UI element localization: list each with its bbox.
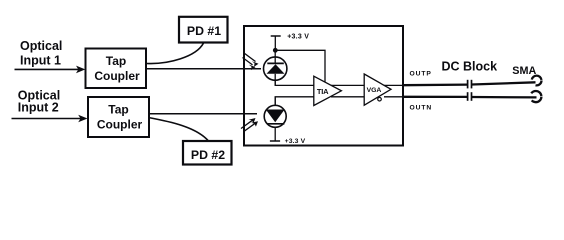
svg-text:DC Block: DC Block bbox=[442, 60, 498, 74]
light arrows into D1 bbox=[243, 53, 259, 70]
photodiode D2 (cathode bar down) bbox=[264, 97, 286, 141]
power +3.3 V top supply bbox=[271, 34, 310, 51]
node supply junction dot bbox=[273, 48, 278, 53]
tap coupler 1 bbox=[86, 49, 147, 89]
svg-text:Coupler: Coupler bbox=[97, 117, 143, 131]
wire tap coupler 2 to PD #2 (tap curve) bbox=[149, 118, 208, 141]
wire input arrow 2 bbox=[12, 115, 88, 123]
capacitor C1 (DC block upper) bbox=[468, 80, 472, 89]
svg-text:VGA: VGA bbox=[367, 87, 382, 94]
svg-text:Input 1: Input 1 bbox=[20, 54, 61, 68]
op-amp TIA bbox=[314, 76, 342, 105]
capacitor C2 (DC block lower) bbox=[468, 92, 472, 101]
wire input arrow 1 bbox=[15, 66, 86, 74]
connector J2 SMA lower bbox=[530, 91, 541, 102]
PD #1 box bbox=[179, 17, 228, 43]
svg-text:OUTN: OUTN bbox=[410, 105, 433, 112]
svg-text:OUTP: OUTP bbox=[410, 70, 432, 77]
connector J1 SMA upper bbox=[532, 76, 542, 86]
wire C2 to SMA lower bbox=[472, 96, 537, 99]
svg-text:PD #1: PD #1 bbox=[187, 24, 221, 38]
wire VGA to chip edge lower bbox=[384, 96, 403, 98]
svg-text:PD #2: PD #2 bbox=[191, 148, 225, 162]
svg-text:Tap: Tap bbox=[108, 103, 128, 117]
light arrows into D2 bbox=[241, 118, 258, 132]
wire tap coupler 1 to chip bbox=[146, 68, 261, 70]
wire tap coupler 2 to chip bbox=[149, 113, 257, 115]
wire TIA to VGA upper bbox=[331, 84, 364, 86]
svg-text:+3.3 V: +3.3 V bbox=[285, 138, 306, 145]
photodiode D1 (cathode bar up) bbox=[264, 50, 287, 85]
op-amp VGA bbox=[364, 74, 391, 105]
svg-text:+3.3 V: +3.3 V bbox=[287, 34, 309, 41]
wire VGA to chip edge upper bbox=[384, 84, 403, 86]
node Optical Input 1 label bbox=[20, 39, 62, 68]
wire tap coupler 1 to PD #1 (tap curve) bbox=[147, 43, 204, 63]
node Optical Input 2 label bbox=[18, 88, 60, 114]
svg-text:Tap: Tap bbox=[106, 54, 126, 68]
svg-text:TIA: TIA bbox=[317, 87, 329, 96]
wire supply to TIA bbox=[275, 50, 325, 82]
svg-text:SMA: SMA bbox=[512, 65, 536, 77]
tap coupler 2 bbox=[88, 97, 149, 137]
wire TIA to VGA lower bbox=[331, 96, 364, 98]
wire D2 to TIA lower input bbox=[275, 97, 314, 106]
svg-text:Optical: Optical bbox=[20, 39, 62, 53]
wire OUTP thick line to C1 bbox=[403, 83, 467, 86]
wire D1 to TIA upper input bbox=[275, 80, 314, 85]
wire C1 to SMA upper bbox=[472, 82, 536, 84]
svg-text:Coupler: Coupler bbox=[94, 69, 140, 83]
power +3.3 V bottom supply bbox=[270, 138, 306, 145]
chip outline box U1 bbox=[244, 26, 403, 146]
PD #2 box bbox=[183, 141, 232, 165]
wire OUTN thick line to C2 bbox=[403, 96, 467, 98]
svg-text:Input 2: Input 2 bbox=[18, 100, 59, 114]
